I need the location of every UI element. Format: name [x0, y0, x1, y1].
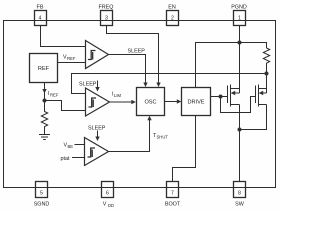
svg-text:V: V: [103, 202, 107, 208]
svg-text:DD: DD: [108, 203, 114, 208]
svg-text:7: 7: [171, 191, 174, 197]
wire PGND node to DRIVE top: [196, 43, 240, 88]
svg-text:DRIVE: DRIVE: [187, 100, 204, 106]
DRIVE block: [182, 88, 211, 116]
pin SGND (5): [34, 182, 50, 208]
arrowhead SLEEP into OSC: [143, 83, 147, 88]
wire VBE input stub: [75, 144, 85, 146]
wire PGND node to Q1 drain: [239, 43, 241, 89]
op-amp U2 (current limit comparator): [86, 88, 110, 116]
wire DRIVE bottom to BOOT: [173, 116, 196, 182]
svg-text:BOOT: BOOT: [165, 202, 181, 208]
svg-text:SLEEP: SLEEP: [88, 126, 106, 132]
pin FREQ (3): [99, 5, 114, 26]
wire OSC to DRIVE: [165, 101, 179, 103]
svg-text:5: 5: [40, 191, 43, 197]
svg-text:1: 1: [238, 16, 241, 22]
hysteresis symbol U1: [88, 51, 96, 60]
wire ILIM from U2 to OSC: [110, 101, 133, 103]
hysteresis symbol U3: [88, 148, 96, 157]
REF block: [30, 54, 58, 83]
wire IREF from REF to node: [44, 83, 46, 101]
IC outline: [4, 21, 276, 188]
wire FREQ to OSC: [107, 26, 159, 84]
wire SW node to SW pin: [239, 130, 241, 182]
transistor Q1: [228, 85, 240, 107]
node PGND junction: [238, 41, 242, 45]
sleep arrow into U3: [97, 131, 99, 138]
svg-text:SHUT: SHUT: [157, 135, 169, 140]
pin FB (4): [35, 5, 47, 26]
wire current-sense line to U2 top input: [72, 74, 267, 94]
wire VREF to comparator U1: [58, 62, 86, 64]
svg-text:BE: BE: [68, 144, 74, 149]
svg-text:PGND: PGND: [231, 5, 247, 11]
svg-text:SGND: SGND: [34, 202, 50, 208]
svg-text:3: 3: [105, 16, 108, 22]
wire resistor to sense node: [266, 66, 268, 74]
svg-text:REF: REF: [38, 66, 50, 72]
wire gate node to Q1 gate: [221, 96, 228, 98]
wire PGND node to sense resistor: [240, 43, 267, 49]
pin PGND (1): [231, 5, 247, 26]
wire Q1 source to SW node: [239, 105, 241, 130]
wire SLEEP from U1 to OSC: [109, 55, 146, 84]
node SW junction: [238, 128, 242, 132]
pin BOOT (7): [165, 182, 181, 208]
op-amp U3 (thermal shutdown comparator): [85, 138, 109, 166]
wire FB to comparator U1: [41, 26, 86, 47]
node sense junction: [265, 72, 269, 76]
svg-text:SLEEP: SLEEP: [79, 82, 97, 88]
wire Q2 source to SW node: [240, 105, 267, 130]
svg-text:LIM: LIM: [114, 93, 121, 98]
pin SW (8): [234, 182, 246, 208]
pin VDD (6): [102, 182, 115, 209]
svg-text:SW: SW: [235, 202, 245, 208]
node IREF junction: [43, 99, 47, 103]
svg-text:OSC: OSC: [144, 100, 156, 106]
svg-text:2: 2: [171, 16, 174, 22]
label TSHUT: [153, 133, 168, 140]
arrowhead FREQ into OSC: [156, 83, 160, 88]
svg-text:6: 6: [106, 191, 109, 197]
label IREF: [48, 91, 59, 98]
label VBE: [64, 143, 74, 150]
resistor R2 (current sense): [263, 48, 269, 66]
svg-text:FREQ: FREQ: [99, 5, 114, 11]
svg-text:EN: EN: [168, 5, 176, 11]
svg-text:ptat: ptat: [61, 156, 70, 162]
transistor Q2: [256, 85, 267, 107]
svg-text:4: 4: [39, 16, 42, 22]
hysteresis symbol U2: [89, 98, 97, 107]
arrowhead ILIM into OSC: [131, 100, 136, 104]
wire TSHUT from U3 to OSC: [109, 119, 150, 152]
svg-text:REF: REF: [50, 93, 59, 98]
wire PGND down to node: [239, 26, 241, 43]
arrowhead IREF: [42, 89, 46, 94]
arrowhead TSHUT into OSC: [147, 116, 151, 121]
node gate junction: [219, 95, 223, 99]
wire IREF node to U2 inverting input: [45, 101, 86, 111]
label VREF: [63, 55, 76, 62]
svg-text:REF: REF: [67, 56, 76, 61]
pin EN (2): [167, 5, 179, 26]
label ILIM: [112, 92, 121, 99]
OSC block: [137, 88, 165, 116]
op-amp U1 (sleep comparator): [86, 41, 109, 69]
wire sense node to Q2 drain: [266, 74, 268, 89]
wire DRIVE output to gate node: [211, 96, 221, 98]
resistor R1 (IREF): [41, 101, 47, 135]
svg-text:8: 8: [238, 191, 241, 197]
ground: [39, 135, 50, 140]
svg-text:SLEEP: SLEEP: [128, 49, 146, 55]
wire ptat input stub: [72, 157, 85, 159]
sleep arrow into U2: [97, 81, 99, 89]
arrowhead OSC to DRIVE: [177, 99, 182, 103]
svg-text:FB: FB: [37, 5, 44, 11]
wire gate node to Q2 gate: [221, 97, 256, 113]
